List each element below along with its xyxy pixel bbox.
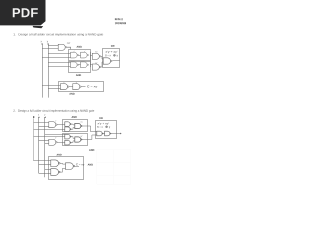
nand G5: [61, 84, 69, 90]
input label y: [47, 41, 48, 43]
wire C2 to D: [101, 62, 103, 67]
nand T2a: [65, 134, 71, 139]
label F box top: [57, 154, 62, 156]
wire E2 input 1: [39, 140, 51, 142]
label AND box3: [69, 93, 74, 95]
wire G6 output: [81, 86, 85, 88]
header line 2: [115, 22, 126, 24]
label AND F box: [88, 164, 93, 166]
nand O2: [105, 131, 111, 136]
nand T1b: [65, 127, 71, 132]
label G3: [74, 63, 75, 64]
input label z: [33, 116, 34, 118]
label G4: [84, 63, 85, 65]
wire box2 input 1: [48, 62, 71, 64]
nand T1a: [65, 122, 71, 127]
wire F2 input 2: [39, 173, 51, 175]
box1 AND: [69, 50, 91, 61]
label G2: [84, 51, 85, 53]
wire F1-F3: [60, 162, 66, 165]
wire T2 output: [82, 135, 97, 140]
item 2 text: [13, 110, 94, 113]
wire G5-G6: [69, 86, 73, 88]
wire T1a-T1c: [71, 123, 75, 126]
label sum expression: [106, 51, 118, 53]
PDF badge fold curl: [33, 26, 44, 28]
nand G3: [71, 62, 79, 68]
box OR circuit2: [96, 121, 117, 139]
wire G1-G2: [79, 55, 81, 57]
nand D: [103, 58, 112, 64]
wire S output: [112, 60, 119, 62]
label AND T1: [72, 116, 77, 118]
wire box1 output: [90, 55, 92, 57]
input label y2: [44, 114, 45, 116]
label AND T2: [89, 149, 94, 151]
wire E2 output: [57, 142, 65, 144]
wire T2b-T2c: [71, 141, 75, 143]
wire T1 output: [82, 126, 97, 132]
item 1 text: [14, 33, 104, 36]
wire F2-F3: [60, 168, 66, 172]
label OR box2: [99, 117, 103, 119]
label E1: [55, 120, 56, 121]
wire U1 output: [67, 47, 71, 49]
input label x2: [38, 114, 39, 115]
label OR box1: [111, 45, 115, 47]
wire E1 input 1: [34, 122, 51, 124]
wire T1b-T1c: [71, 127, 75, 129]
nand O1: [97, 131, 103, 136]
input rail y: [48, 44, 50, 98]
nand T2c: [75, 137, 82, 142]
wire T2 upper input: [45, 134, 65, 136]
nand G4: [81, 62, 89, 68]
label G1: [74, 51, 75, 52]
label U1 output: [67, 42, 70, 44]
PDF badge text: [13, 8, 38, 17]
nand C1: [92, 53, 100, 59]
box2 AND: [69, 62, 91, 73]
nand G6: [73, 84, 81, 90]
label AND box1: [77, 46, 82, 48]
label C1: [95, 51, 97, 53]
wire F1 input 2: [39, 164, 51, 166]
nand F2: [51, 169, 60, 176]
wire O1-O2: [103, 133, 105, 135]
label AND box2: [76, 74, 81, 76]
input rail x2: [38, 117, 40, 173]
wire box2 input 2: [48, 66, 71, 68]
bypass rail 2: [33, 118, 35, 161]
input arrow y: [47, 43, 49, 44]
PDF badge: [0, 0, 46, 25]
faint table grid: [97, 150, 132, 185]
box T1: [63, 120, 88, 132]
label sum expression 2: [98, 123, 109, 125]
wire box1 input 2: [42, 57, 71, 59]
wire T2a-T2c: [71, 137, 75, 139]
box OR circuit1: [103, 49, 120, 68]
label S equation 2: [97, 126, 103, 128]
label T2: [80, 135, 82, 137]
label G6: [76, 82, 77, 84]
wire E1 output: [57, 124, 65, 126]
label G5: [63, 82, 64, 83]
wire box3 input 1: [42, 85, 61, 87]
wire E1 input 2: [39, 126, 51, 128]
nand T2b: [65, 140, 71, 145]
wire to U1 input B: [42, 48, 59, 50]
wire box3 input 2: [48, 88, 61, 90]
wire S2 output: [111, 133, 121, 135]
nand G1: [71, 52, 79, 58]
wire T2 second input: [34, 136, 65, 138]
box F carry: [49, 157, 84, 180]
label T1: [80, 121, 82, 123]
nand F1: [51, 160, 60, 167]
wire E2 input 2: [45, 143, 51, 145]
nand F3: [66, 163, 75, 170]
wire G3-G4: [79, 64, 81, 66]
header line 1: [115, 18, 123, 20]
wire F2 input 1: [45, 169, 51, 171]
label C equation: [87, 86, 97, 88]
wire to U1 input A: [48, 45, 59, 47]
wire F1 input 1: [34, 160, 51, 162]
input arrow x: [41, 43, 43, 44]
wire box2 output: [90, 64, 92, 66]
input arrow x2: [38, 116, 40, 117]
box3 AND carry: [59, 82, 104, 92]
wire F3 output: [75, 166, 79, 168]
box T2: [63, 134, 88, 146]
input rail y2: [44, 117, 46, 177]
label S equation: [105, 54, 111, 56]
input rail x: [42, 44, 44, 98]
label C equation 2: [76, 164, 84, 166]
label C2: [95, 62, 97, 64]
wire box1 input 1: [48, 53, 71, 55]
nand C2: [92, 64, 100, 70]
node vertical connector: [90, 52, 92, 67]
input label x: [41, 41, 42, 42]
nand T1c: [75, 123, 82, 128]
nand G2: [81, 52, 89, 58]
input arrow y2: [45, 116, 47, 117]
wire C1 to D: [101, 56, 103, 59]
nand U1: [58, 44, 66, 50]
label E2: [55, 137, 56, 139]
nand E2: [49, 139, 57, 145]
wire T1 lower input: [34, 129, 65, 131]
nand E1: [49, 122, 57, 128]
